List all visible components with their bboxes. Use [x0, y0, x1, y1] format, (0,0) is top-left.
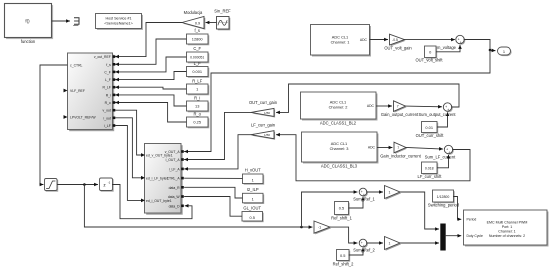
sum Sum_output_current: [418, 103, 456, 117]
gain OUT_volt_gain: [384, 34, 412, 50]
constant Switching_period 1/12800: [428, 190, 460, 208]
wire control branch to bottom chain: [84, 185, 312, 229]
svg-text:i_LF_A: i_LF_A: [169, 167, 181, 171]
svg-text:0.001: 0.001: [192, 69, 202, 74]
constant L_F 0.001: [187, 61, 210, 78]
svg-text:ADC: ADC: [360, 38, 368, 42]
svg-text:0.5: 0.5: [340, 253, 345, 258]
svg-text:GL_IOUT: GL_IOUT: [243, 205, 261, 210]
wire OUT_volt_shift to Sum_voltage: [437, 46, 461, 52]
svg-text:0.018: 0.018: [425, 167, 434, 171]
wire mux to PWM Duty Cycle: [445, 235, 461, 237]
svg-text:Port: 1: Port: 1: [502, 225, 513, 229]
wire c_CTRL to saturation: [40, 65, 67, 185]
constant R_LF 1: [187, 78, 210, 95]
sum Sum_Ref_1: [353, 188, 375, 202]
svg-text:Ref_shift_1: Ref_shift_1: [331, 215, 352, 220]
svg-text:Channel: 1: Channel: 1: [498, 230, 515, 234]
svg-text:f(): f(): [25, 19, 30, 24]
unit delay z-1: [100, 178, 114, 192]
svg-text:LF_curr_gain: LF_curr_gain: [251, 123, 276, 128]
wire Sum_Ref_1 to gain Duty1: [367, 191, 383, 193]
svg-text:Gain_inductor_current: Gain_inductor_current: [380, 153, 421, 158]
controller subsystem U1: [68, 53, 115, 131]
svg-text:1/12800: 1/12800: [437, 195, 450, 199]
saturation block: [45, 179, 59, 192]
wire 0.25 to R_o port: [116, 103, 186, 123]
constant C_F 0.000051: [187, 46, 210, 63]
svg-text:EMC Multi Channel PWM: EMC Multi Channel PWM: [487, 220, 528, 224]
svg-text:Sum_Ref_2: Sum_Ref_2: [353, 248, 375, 253]
gain Gain_inductor_current: [380, 142, 421, 158]
svg-text:12800: 12800: [192, 37, 204, 42]
svg-text:Sum_output_current: Sum_output_current: [418, 112, 456, 117]
svg-text:Gain_output_current: Gain_output_current: [381, 112, 419, 117]
svg-text:13: 13: [195, 104, 199, 109]
wire Sum_voltage to outport and feedback: [185, 40, 495, 152]
constant LF_curr_shift 0.018: [418, 162, 443, 179]
function block f(): [5, 4, 54, 45]
ADC block channel 2: [301, 92, 378, 125]
target U2 left input arrows: [141, 153, 145, 202]
constant I2_ILP 1: [243, 187, 265, 204]
svg-text:Channel: 1: Channel: 1: [331, 40, 350, 45]
gain Duty2: [385, 237, 402, 251]
svg-text:R_o: R_o: [193, 111, 201, 116]
svg-text:OUT_volt_shift: OUT_volt_shift: [415, 57, 443, 62]
svg-text:ADC: ADC: [367, 104, 375, 108]
svg-text:-1: -1: [318, 226, 321, 230]
svg-text:Number of channels: 2: Number of channels: 2: [489, 234, 525, 238]
svg-text:L_F: L_F: [194, 61, 202, 66]
svg-text:-1: -1: [108, 180, 111, 184]
sum Sum_Ref_2: [353, 239, 375, 253]
svg-text:function: function: [21, 39, 36, 44]
constant GL_IOUT 0.5: [242, 205, 264, 222]
constant R_i 13: [187, 95, 210, 112]
svg-text:-0.5: -0.5: [392, 38, 398, 42]
svg-text:CTRL_A: CTRL_A: [167, 177, 181, 181]
svg-text:1: 1: [252, 197, 254, 202]
wire OUT_curr_shift to Sum_output_current: [438, 113, 448, 127]
svg-text:Channel: 2: Channel: 2: [329, 105, 348, 110]
svg-text:H_xOUT: H_xOUT: [245, 168, 261, 173]
svg-text:Host Service #1: Host Service #1: [105, 17, 131, 21]
svg-text:0.5: 0.5: [339, 206, 344, 211]
Host Service block: [96, 14, 143, 30]
svg-text:Sum_LF_current: Sum_LF_current: [425, 155, 456, 160]
ADC block channel 3: [302, 132, 379, 168]
svg-text:ADC_CLASS1_BL2: ADC_CLASS1_BL2: [320, 120, 357, 125]
svg-text:OUT_curr_gain: OUT_curr_gain: [249, 100, 278, 105]
svg-text:f_s: f_s: [194, 28, 199, 33]
svg-text:0.9: 0.9: [195, 21, 200, 25]
svg-text:C_F: C_F: [104, 70, 110, 74]
gain Gain_output_current: [381, 101, 419, 117]
sine source Sin_REF: [214, 9, 231, 31]
svg-text:Channel: 3: Channel: 3: [330, 146, 349, 151]
wire invert gain to Sum_Ref_2: [330, 227, 357, 243]
svg-text:7: 7: [397, 105, 399, 109]
svg-text:I2_ILP: I2_ILP: [247, 187, 259, 192]
wire Gain_output_current to Sum_output_current: [406, 105, 442, 108]
wire Sin_REF to Modulacja: [206, 22, 216, 24]
svg-text:OUT_curr_shift: OUT_curr_shift: [416, 133, 445, 138]
svg-text:R_i: R_i: [194, 95, 200, 100]
svg-text:1: 1: [196, 87, 198, 92]
svg-text:ADC_CLASS1_BL3: ADC_CLASS1_BL3: [321, 163, 358, 168]
wire Duty1 gain to mux: [400, 192, 439, 229]
svg-text:c_CTRL: c_CTRL: [70, 63, 83, 67]
svg-text:1: 1: [389, 191, 391, 195]
constant Ref_shift_2 0.5: [333, 250, 354, 267]
wire ADC2 to Gain_output_current: [377, 105, 392, 107]
svg-text:<ServiceName1>: <ServiceName1>: [104, 22, 133, 26]
svg-text:data_R: data_R: [169, 186, 180, 190]
wire Gain_inductor_current to Sum_LF_current: [406, 148, 443, 150]
controller U1 right edge port squares: [113, 55, 116, 127]
svg-text:LPVOLT_REF/W: LPVOLT_REF/W: [70, 115, 96, 119]
event port icon: [74, 18, 80, 26]
svg-text:1: 1: [389, 242, 391, 246]
mux: [441, 224, 445, 250]
constant OUT_curr_shift 0.01: [416, 122, 445, 139]
gain invert -1: [314, 221, 331, 234]
sum Sum_voltage: [432, 35, 465, 50]
svg-text:v_out_REF: v_out_REF: [94, 55, 111, 59]
wire Modulacja to v_out_REF port: [116, 23, 182, 57]
wire 13 to R_i port: [116, 95, 186, 106]
wire OUT_curr_gain to U2 i_OUT_A: [185, 112, 251, 159]
svg-text:i_out: i_out: [103, 116, 111, 120]
svg-text:ed_i_LF_byte1: ed_i_LF_byte1: [146, 176, 169, 180]
wire ADC1 to OUT_volt_gain: [370, 39, 388, 41]
controller U1 input port markers: [64, 89, 68, 119]
svg-text:7: 7: [397, 146, 399, 150]
svg-text:Duty Cycle: Duty Cycle: [467, 234, 484, 238]
svg-text:data_D: data_D: [169, 204, 180, 208]
wire v_out port down to target block: [116, 110, 142, 155]
svg-text:Period: Period: [467, 218, 477, 222]
svg-text:1/50: 1/50: [264, 111, 270, 115]
gain OUT_curr_gain 1/50: [249, 100, 278, 117]
svg-text:Ref_shift_2: Ref_shift_2: [333, 262, 354, 267]
wire Sum_Ref_2 to gain Duty2: [367, 242, 383, 244]
svg-text:0.5: 0.5: [249, 215, 254, 220]
wire Switching_period to PWM Period: [454, 197, 461, 220]
svg-text:C_F: C_F: [193, 46, 201, 51]
svg-text:Modulacja: Modulacja: [184, 10, 203, 15]
svg-text:1: 1: [503, 49, 505, 54]
feedback wire Sum_LF_current to LF_curr_gain: [277, 135, 471, 181]
wire saturation to unit delay with junction: [58, 183, 98, 186]
svg-text:v_out: v_out: [103, 109, 111, 113]
target U2 right edge port squares: [181, 150, 184, 207]
sum Sum_LF_current: [425, 145, 456, 159]
wire LF_curr_gain to U2 i_LF_A: [185, 135, 251, 169]
PWM block: [464, 210, 549, 247]
wire i_out port down to target block: [116, 118, 142, 178]
svg-text:R_o: R_o: [105, 101, 111, 105]
wire function to event icon: [52, 20, 70, 22]
wire 0.000051 to C_F port: [116, 57, 186, 72]
wire U2 data_R row to I2_ILP: [185, 187, 242, 198]
svg-text:+: +: [460, 41, 462, 45]
svg-text:0.000051: 0.000051: [190, 56, 204, 60]
wire 12800 to f_s port: [116, 39, 186, 64]
wire U2 data_W row to GL_IOUT: [185, 197, 242, 217]
constant f_s 12800: [187, 28, 210, 45]
wire ADC3 to Gain_inductor_current: [378, 147, 393, 149]
constant R_o 0.25: [187, 111, 210, 128]
svg-text:R_i: R_i: [106, 93, 111, 97]
svg-text:i_LF: i_LF: [104, 124, 111, 128]
svg-text:R_LF: R_LF: [103, 86, 111, 90]
gain LF_curr_gain 1/50: [251, 123, 276, 140]
wire unit delay to target block row: [113, 185, 193, 219]
svg-text:VLF_REF: VLF_REF: [70, 89, 85, 93]
wire Duty2 gain to mux: [400, 242, 439, 244]
svg-text:Sum_Ref_1: Sum_Ref_1: [353, 197, 375, 202]
wire U2 CTRL_A row to H_xOUT: [185, 177, 242, 179]
feedback wire Sum_output_current to OUT_curr_gain: [277, 84, 460, 112]
constant H_xOUT 1: [243, 168, 265, 185]
svg-text:ed_i_OUT_byte1: ed_i_OUT_byte1: [146, 199, 172, 203]
wire branch up to Sum_Ref_1: [302, 192, 358, 227]
svg-text:Sin_REF: Sin_REF: [214, 9, 231, 14]
svg-text:ed_v_OUT_byte1: ed_v_OUT_byte1: [146, 154, 173, 158]
svg-text:OUT_volt_gain: OUT_volt_gain: [384, 45, 412, 50]
target interface subsystem U2: [145, 144, 183, 215]
wire LF_curr_shift to Sum_LF_current: [438, 155, 449, 168]
wire Ref_shift_2 to Sum_Ref_2: [349, 248, 363, 255]
svg-text:i_OUT_A: i_OUT_A: [165, 158, 180, 162]
wire Ref_shift_1 to Sum_Ref_1: [349, 197, 363, 208]
svg-text:ADC: ADC: [368, 146, 376, 150]
svg-text:L_F: L_F: [105, 78, 111, 82]
svg-text:Switching_period: Switching_period: [428, 203, 460, 208]
wire i_LF port down to target block: [116, 126, 142, 201]
ADC block channel 1: [311, 25, 372, 57]
wire 1 to R_LF port: [116, 87, 186, 89]
gain Modulacja: [182, 10, 205, 30]
svg-text:0.01: 0.01: [425, 125, 433, 130]
svg-text:1/50: 1/50: [264, 133, 270, 137]
svg-text:R_LF: R_LF: [192, 78, 203, 83]
constant Ref_shift_1 0.5: [331, 202, 352, 221]
svg-text:LF_curr_shift: LF_curr_shift: [418, 174, 443, 179]
outport 1: [498, 47, 512, 56]
svg-text:1: 1: [252, 177, 254, 182]
wire 0.001 to L_F port: [116, 72, 186, 80]
constant OUT_volt_shift 0: [415, 46, 443, 62]
gain Duty1: [385, 186, 402, 200]
svg-text:0.25: 0.25: [193, 120, 201, 125]
wire OUT_volt_gain to Sum_voltage: [405, 39, 455, 41]
svg-text:f_s: f_s: [106, 63, 111, 67]
